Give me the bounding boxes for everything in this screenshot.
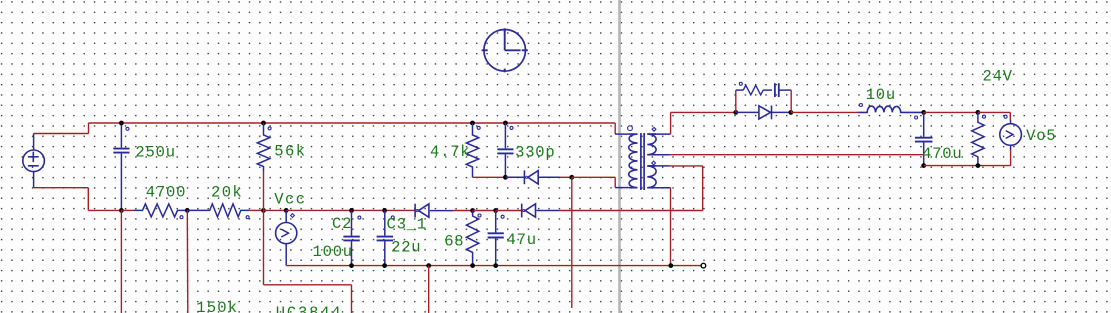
resistor 68	[466, 211, 478, 266]
wire	[647, 165, 702, 167]
diode D1	[415, 204, 454, 218]
wire	[34, 188, 122, 211]
node dot	[426, 263, 431, 268]
wire	[34, 123, 89, 134]
wire	[615, 123, 629, 134]
pin marker	[652, 161, 656, 165]
diode D3	[524, 170, 560, 184]
wire secondary return	[670, 154, 924, 156]
node dot	[976, 163, 981, 168]
label 20k	[211, 183, 243, 201]
wire	[121, 209, 134, 211]
wire	[186, 210, 189, 313]
svg-text:150k: 150k	[196, 299, 238, 313]
wire	[454, 210, 473, 212]
wire	[1010, 150, 1012, 166]
pin marker	[1004, 115, 1007, 118]
capacitor 250u	[113, 123, 129, 210]
wire	[736, 90, 744, 112]
svg-text:470u: 470u	[922, 145, 962, 163]
wire	[560, 210, 703, 212]
wire	[560, 176, 572, 178]
svg-text:47u: 47u	[507, 231, 537, 249]
diode D2	[522, 204, 560, 218]
wire	[791, 111, 858, 113]
label UC3844	[276, 304, 343, 313]
pin marker	[510, 126, 513, 129]
node dot	[470, 263, 475, 268]
capacitor C3_1 22u	[377, 210, 393, 265]
node dot	[382, 208, 387, 213]
svg-text:56k: 56k	[274, 143, 306, 161]
wire	[473, 176, 506, 178]
label 100u	[313, 243, 353, 261]
label 56k	[274, 143, 306, 161]
node dot	[733, 110, 738, 115]
svg-text:330p: 330p	[515, 144, 555, 162]
wire	[670, 188, 672, 266]
node dot	[284, 208, 289, 213]
resistor 4700	[134, 204, 187, 217]
snubber capacitor	[775, 83, 779, 97]
wire	[263, 171, 265, 210]
pin marker	[739, 82, 742, 85]
pin marker	[246, 216, 249, 219]
snubber resistor	[743, 85, 763, 95]
svg-text:C2: C2	[332, 215, 352, 233]
label Vo5	[1026, 127, 1056, 145]
node dot	[503, 175, 508, 180]
node dot	[788, 110, 793, 115]
transformer secondary winding 1	[647, 134, 656, 155]
svg-text:20k: 20k	[211, 183, 243, 201]
wire	[978, 112, 1010, 120]
transformer TX1 primary winding	[629, 134, 638, 188]
label Vcc	[274, 190, 306, 208]
capacitor 47u	[488, 211, 504, 266]
wire	[736, 111, 759, 113]
clock icon	[482, 28, 528, 72]
node dot	[261, 121, 266, 126]
capacitor 330p	[497, 123, 513, 177]
wire drain	[571, 177, 573, 308]
node dot	[349, 263, 354, 268]
label 250u	[135, 143, 175, 161]
node dot	[261, 208, 266, 213]
wire	[505, 176, 524, 178]
svg-text:4.7k: 4.7k	[430, 143, 470, 161]
resistor 4.7k	[466, 123, 478, 177]
pin marker	[180, 216, 183, 219]
wire	[286, 209, 415, 211]
wire	[473, 210, 496, 212]
load resistor	[972, 112, 984, 165]
label 47u	[507, 231, 537, 249]
pin marker	[391, 216, 394, 219]
label 150k	[196, 299, 238, 313]
wire	[647, 187, 670, 189]
wire	[647, 133, 670, 135]
wire	[428, 266, 430, 313]
transformer core	[641, 133, 644, 190]
label 10u	[866, 86, 896, 104]
label 4700	[146, 183, 186, 201]
resistor 56k	[257, 123, 269, 171]
node dot	[493, 208, 498, 213]
svg-text:Vcc: Vcc	[274, 190, 306, 208]
node dot	[470, 208, 475, 213]
wire top bus	[89, 122, 616, 124]
node dot	[976, 110, 981, 115]
pin marker	[291, 214, 295, 218]
wire	[702, 166, 704, 211]
svg-text:250u: 250u	[135, 143, 175, 161]
wire	[671, 112, 736, 134]
pin marker	[983, 115, 986, 118]
svg-text:Vo5: Vo5	[1026, 127, 1056, 145]
wire	[120, 210, 122, 313]
page divider line	[618, 0, 621, 313]
voltage source V1	[23, 134, 45, 188]
wire	[924, 111, 978, 113]
node dot	[921, 110, 926, 115]
label C2	[332, 215, 352, 233]
label 24V	[983, 67, 1013, 85]
wire	[772, 111, 791, 113]
wire out bottom bus	[924, 165, 1011, 167]
pin marker	[915, 116, 918, 119]
node dot	[503, 121, 508, 126]
node dot	[119, 121, 124, 126]
svg-text:100u: 100u	[313, 243, 353, 261]
node dot	[470, 121, 475, 126]
wire	[763, 89, 772, 91]
pin marker	[477, 126, 480, 129]
label 22u	[391, 239, 421, 257]
svg-text:UC3844: UC3844	[276, 304, 343, 313]
node dot	[185, 208, 190, 213]
pin marker	[126, 127, 129, 130]
node dot	[349, 208, 354, 213]
node dot	[493, 263, 498, 268]
capacitor 470u	[915, 112, 933, 165]
node dot	[119, 208, 124, 213]
svg-text:22u: 22u	[391, 239, 421, 257]
label 330p	[515, 144, 555, 162]
label 4.7k	[430, 143, 470, 161]
pin marker	[358, 216, 361, 219]
capacitor C2 100u	[343, 210, 359, 265]
wire	[572, 177, 615, 187]
probe Vo5	[1000, 120, 1022, 150]
no-connect terminal	[701, 263, 706, 268]
pin marker	[652, 127, 656, 131]
label C3_1	[387, 215, 427, 233]
pin marker	[859, 104, 862, 107]
svg-text:24V: 24V	[983, 67, 1013, 85]
wire	[496, 210, 522, 212]
wire	[249, 209, 264, 211]
svg-text:68: 68	[444, 232, 464, 250]
pin marker	[628, 126, 633, 131]
label 68	[444, 232, 464, 250]
pin marker	[501, 215, 504, 218]
node dot	[382, 263, 387, 268]
node dot	[569, 175, 574, 180]
wire Vcc to UC3844	[264, 210, 352, 313]
inductor 10u	[858, 106, 924, 112]
diode D4	[759, 106, 772, 120]
wire	[615, 187, 629, 189]
probe Vcc	[276, 210, 297, 265]
svg-text:C3_1: C3_1	[387, 215, 427, 233]
wire bottom bus	[286, 265, 703, 267]
wire	[647, 154, 669, 156]
pin marker	[268, 127, 271, 130]
pin marker	[478, 214, 481, 217]
transformer secondary winding 2	[647, 166, 656, 188]
node dot	[921, 163, 926, 168]
svg-text:10u: 10u	[866, 86, 896, 104]
wire	[264, 209, 287, 211]
label 470u	[922, 145, 962, 163]
node dot	[668, 263, 673, 268]
wire	[779, 90, 791, 112]
resistor 20k	[187, 204, 249, 217]
svg-text:4700: 4700	[146, 183, 186, 201]
